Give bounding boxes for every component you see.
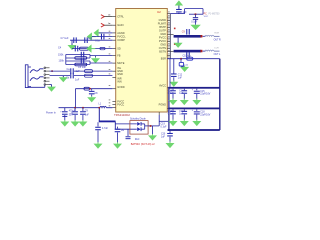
svg-text:MUTE: MUTE: [117, 61, 125, 65]
svg-text:U2: U2: [157, 10, 161, 14]
svg-text:GAIN: GAIN: [117, 23, 123, 27]
svg-text:PVCC: PVCC: [159, 36, 166, 40]
svg-text:100k: 100k: [59, 60, 65, 63]
svg-text:PJ-MST50: PJ-MST50: [209, 14, 221, 16]
svg-text:INN: INN: [117, 79, 122, 83]
svg-text:22uF/16V: 22uF/16V: [200, 114, 210, 116]
svg-text:Power In: Power In: [46, 112, 56, 115]
svg-text:C14: C14: [179, 90, 184, 92]
svg-text:PGND: PGND: [159, 103, 167, 107]
svg-text:PVCC: PVCC: [159, 39, 166, 43]
svg-text:OUTP: OUTP: [159, 29, 166, 33]
svg-text:LCH: LCH: [215, 47, 220, 49]
svg-text:AGND: AGND: [117, 31, 125, 35]
svg-text:C13: C13: [168, 90, 173, 92]
svg-text:C20: C20: [161, 133, 166, 135]
svg-text:C5 1uF: C5 1uF: [78, 66, 87, 69]
svg-text:PVCC: PVCC: [117, 103, 124, 107]
svg-text:GND: GND: [160, 32, 166, 36]
svg-text:C18: C18: [200, 112, 205, 114]
svg-text:1uF: 1uF: [76, 70, 81, 73]
svg-text:0.1uF: 0.1uF: [191, 22, 198, 24]
svg-text:150k: 150k: [58, 54, 64, 57]
svg-text:0.1uF: 0.1uF: [161, 126, 168, 128]
svg-text:1uF: 1uF: [85, 115, 90, 117]
svg-text:COMP: COMP: [117, 38, 125, 42]
svg-text:C15: C15: [200, 91, 205, 93]
svg-text:SD: SD: [117, 47, 121, 51]
svg-text:C12: C12: [178, 74, 183, 76]
svg-text:C7 1uF: C7 1uF: [61, 37, 70, 40]
svg-text:VCC: VCC: [204, 16, 209, 18]
svg-text:Schottky Diode: Schottky Diode: [130, 118, 146, 121]
svg-text:C17: C17: [179, 111, 184, 113]
svg-text:PLIMIT: PLIMIT: [158, 22, 167, 26]
svg-text:FB: FB: [117, 54, 121, 58]
svg-text:PVCCL: PVCCL: [117, 35, 126, 39]
svg-text:OUT R: OUT R: [214, 39, 221, 41]
svg-text:35V: 35V: [69, 115, 74, 117]
svg-text:0.1uF: 0.1uF: [168, 114, 174, 116]
svg-text:BSTP: BSTP: [159, 25, 166, 29]
svg-text:1uF: 1uF: [179, 114, 184, 116]
svg-text:BSTN: BSTN: [159, 50, 166, 54]
svg-text:4.7uF: 4.7uF: [102, 128, 109, 130]
svg-text:GVDD: GVDD: [117, 85, 125, 89]
svg-text:OUT L: OUT L: [214, 54, 221, 56]
svg-text:AVCC: AVCC: [159, 84, 166, 88]
svg-text:0.1u: 0.1u: [95, 41, 100, 43]
svg-text:TPA3116D2: TPA3116D2: [114, 113, 130, 117]
svg-text:1uF: 1uF: [75, 79, 80, 82]
svg-text:1uF: 1uF: [178, 77, 183, 79]
svg-text:1uF: 1uF: [88, 37, 93, 40]
svg-text:BSR: BSR: [161, 57, 166, 61]
svg-text:1uF: 1uF: [161, 136, 166, 138]
svg-text:RCH: RCH: [215, 33, 220, 35]
svg-text:BAT54C (SOT-23) x2: BAT54C (SOT-23) x2: [131, 142, 156, 146]
svg-text:GND: GND: [117, 72, 123, 76]
svg-text:CTRL: CTRL: [117, 14, 124, 18]
svg-text:GND: GND: [160, 43, 166, 47]
svg-text:C16: C16: [168, 111, 173, 113]
svg-text:OUTN: OUTN: [159, 46, 166, 50]
svg-text:GVDD: GVDD: [159, 18, 167, 22]
svg-text:C19: C19: [161, 123, 166, 125]
svg-text:1uF: 1uF: [179, 93, 184, 95]
svg-text:22uF/16V: 22uF/16V: [200, 94, 210, 96]
svg-text:0.1uF: 0.1uF: [168, 93, 174, 95]
svg-text:RsC: RsC: [135, 139, 140, 141]
